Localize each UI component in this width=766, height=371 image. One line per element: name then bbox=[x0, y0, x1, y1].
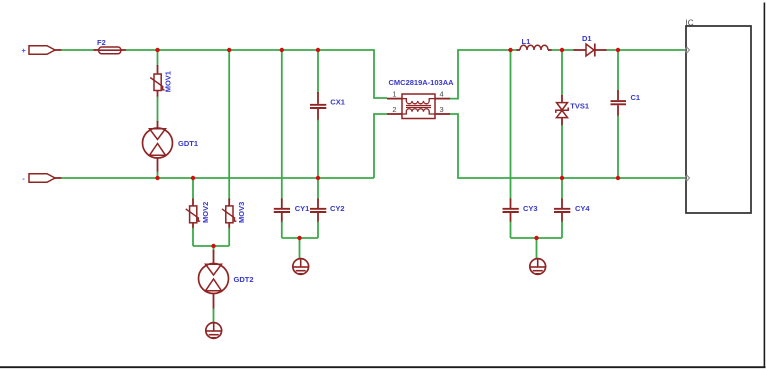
wire: CY3 branch vertical (top rail to CY3, crosses minus rail) bbox=[510, 50, 512, 199]
capacitor CY1 bbox=[274, 199, 309, 223]
wire: CY4 branch from minus rail bbox=[561, 178, 563, 199]
wire: joint to GDT2 bbox=[213, 246, 215, 251]
svg-text:CY2: CY2 bbox=[330, 204, 345, 213]
wire: TVS1 to minus rail bbox=[561, 125, 563, 178]
wire: CX1 to minus rail bbox=[317, 120, 319, 178]
svg-text:CX1: CX1 bbox=[330, 98, 345, 107]
connector P2 (- input) bbox=[29, 174, 55, 183]
wire: CY1 branch vertical (top rail to CY1, crosses minus rail) bbox=[281, 50, 283, 200]
capacitor CY3 bbox=[503, 199, 538, 223]
wire: MOV2/MOV3 joining wire bbox=[193, 245, 229, 247]
junction: minus rail right / C1 bbox=[616, 176, 620, 180]
wire: CY1 to earth joint bbox=[281, 222, 283, 239]
wire: C1 to minus rail bbox=[617, 116, 619, 179]
connector P1 (+ input) bbox=[29, 46, 55, 55]
svg-text:MOV3: MOV3 bbox=[237, 202, 246, 223]
wire: top rail left, F2 to transformer pin 1 bbox=[126, 50, 387, 98]
capacitor CY4 bbox=[554, 199, 590, 223]
wire: MOV2 branch from minus rail bbox=[192, 178, 194, 199]
wire: TVS1 branch upper bbox=[561, 50, 563, 96]
svg-text:CMC2819A-103AA: CMC2819A-103AA bbox=[389, 78, 455, 87]
wire: CY3 to earth joint bbox=[510, 222, 512, 239]
IC pin marker top bbox=[684, 47, 689, 52]
capacitor CX1 bbox=[310, 92, 345, 121]
pin 2 of choke bbox=[387, 105, 402, 114]
junction: minus rail / MOV2 branch bbox=[191, 176, 195, 180]
IC pin marker bottom bbox=[684, 175, 689, 180]
wire: MOV2 to GDT2 joint bbox=[192, 228, 194, 246]
earth ground (GDT2) bbox=[206, 323, 222, 339]
svg-text:L1: L1 bbox=[522, 37, 531, 46]
wire: MOV1 to GDT1 bbox=[157, 97, 159, 123]
wire: MOV1 branch from top rail bbox=[157, 50, 159, 66]
svg-text:GDT1: GDT1 bbox=[178, 139, 198, 148]
svg-text:IC: IC bbox=[686, 19, 694, 28]
pin 3 of choke bbox=[435, 105, 450, 114]
junction: CY3/CY4 joint bbox=[534, 236, 538, 240]
pin 4 of choke bbox=[435, 90, 450, 99]
wire: CY3/CY4 joining wire bbox=[511, 237, 563, 239]
svg-text:F2: F2 bbox=[97, 38, 106, 47]
wire: C1 branch upper bbox=[617, 50, 619, 90]
junction: top rail / C1 branch bbox=[616, 48, 620, 52]
junction: CY1/CY2 joint bbox=[297, 236, 301, 240]
wire: choke pin 2 to minus rail left bbox=[374, 114, 387, 178]
junction: top rail / MOV3 branch bbox=[227, 48, 231, 52]
capacitor C1 bbox=[611, 90, 641, 117]
wire: CY4 to earth joint bbox=[561, 222, 563, 239]
inductor L1 bbox=[517, 37, 552, 50]
wire: CY1/CY2 joining wire bbox=[282, 237, 318, 239]
capacitor CY2 bbox=[310, 199, 345, 223]
svg-text:CY1: CY1 bbox=[295, 204, 310, 213]
wire: GDT1 to minus rail bbox=[157, 172, 159, 178]
junction: top rail / CX1 branch bbox=[316, 48, 320, 52]
svg-text:3: 3 bbox=[440, 105, 444, 114]
svg-text:GDT2: GDT2 bbox=[234, 275, 254, 284]
junction: MOV joint / GDT2 bbox=[211, 244, 215, 248]
wire: GDT2 to earth bbox=[213, 309, 215, 324]
IC U1 bbox=[686, 19, 752, 214]
wire: choke pin 4 to top rail right bbox=[450, 50, 518, 99]
wire: CY2 to earth joint bbox=[317, 222, 319, 239]
svg-text:CY4: CY4 bbox=[575, 204, 590, 213]
pin 1 of choke bbox=[387, 90, 402, 99]
TVS diode TVS1 bbox=[556, 95, 589, 126]
svg-text:MOV1: MOV1 bbox=[164, 71, 173, 92]
junction: top rail / CY3 branch bbox=[508, 48, 512, 52]
wire: + connector to fuse F2 bbox=[55, 49, 99, 51]
svg-text:TVS1: TVS1 bbox=[570, 102, 589, 111]
wire: CY2 branch from minus rail bbox=[317, 178, 319, 200]
svg-text:4: 4 bbox=[440, 90, 444, 99]
varistor MOV2 bbox=[186, 199, 210, 229]
varistor MOV1 bbox=[150, 65, 172, 98]
junction: minus rail / GDT1 bbox=[155, 176, 159, 180]
wire: CY joint to earth bbox=[299, 238, 301, 259]
gas discharge tube GDT1 bbox=[143, 121, 199, 173]
wire: minus rail left bbox=[55, 177, 374, 179]
gas discharge tube GDT2 bbox=[199, 250, 254, 310]
wire: choke pin 3 to minus rail right bbox=[450, 114, 686, 178]
svg-text:1: 1 bbox=[392, 90, 396, 99]
varistor MOV3 bbox=[222, 199, 246, 229]
earth ground (CY1/CY2) bbox=[293, 259, 309, 275]
svg-text:MOV2: MOV2 bbox=[201, 202, 210, 223]
svg-text:+: + bbox=[22, 46, 27, 55]
svg-text:2: 2 bbox=[392, 105, 396, 114]
wire: MOV3 branch vertical (top rail to MOV3, crosses minus rail) bbox=[228, 50, 230, 200]
junction: top rail / TVS1 branch bbox=[560, 48, 564, 52]
common mode choke CMC2819A-103AA bbox=[389, 78, 455, 119]
fuse F2 bbox=[97, 38, 126, 54]
junction: minus rail / CX1-CY2 branch bbox=[316, 176, 320, 180]
wire: MOV3 to GDT2 joint bbox=[228, 228, 230, 246]
svg-text:C1: C1 bbox=[631, 93, 641, 102]
svg-text:D1: D1 bbox=[582, 34, 592, 43]
junction: top rail / CY1 branch bbox=[280, 48, 284, 52]
junction: top rail / MOV1 branch bbox=[155, 48, 159, 52]
svg-text:CY3: CY3 bbox=[523, 204, 538, 213]
diode D1 bbox=[574, 34, 607, 57]
junction: minus rail right / TVS1-CY4 bbox=[560, 176, 564, 180]
wire: CY3/CY4 joint to earth bbox=[536, 238, 538, 259]
wire: CX1 branch upper bbox=[317, 50, 319, 93]
earth ground (CY3/CY4) bbox=[530, 259, 546, 275]
